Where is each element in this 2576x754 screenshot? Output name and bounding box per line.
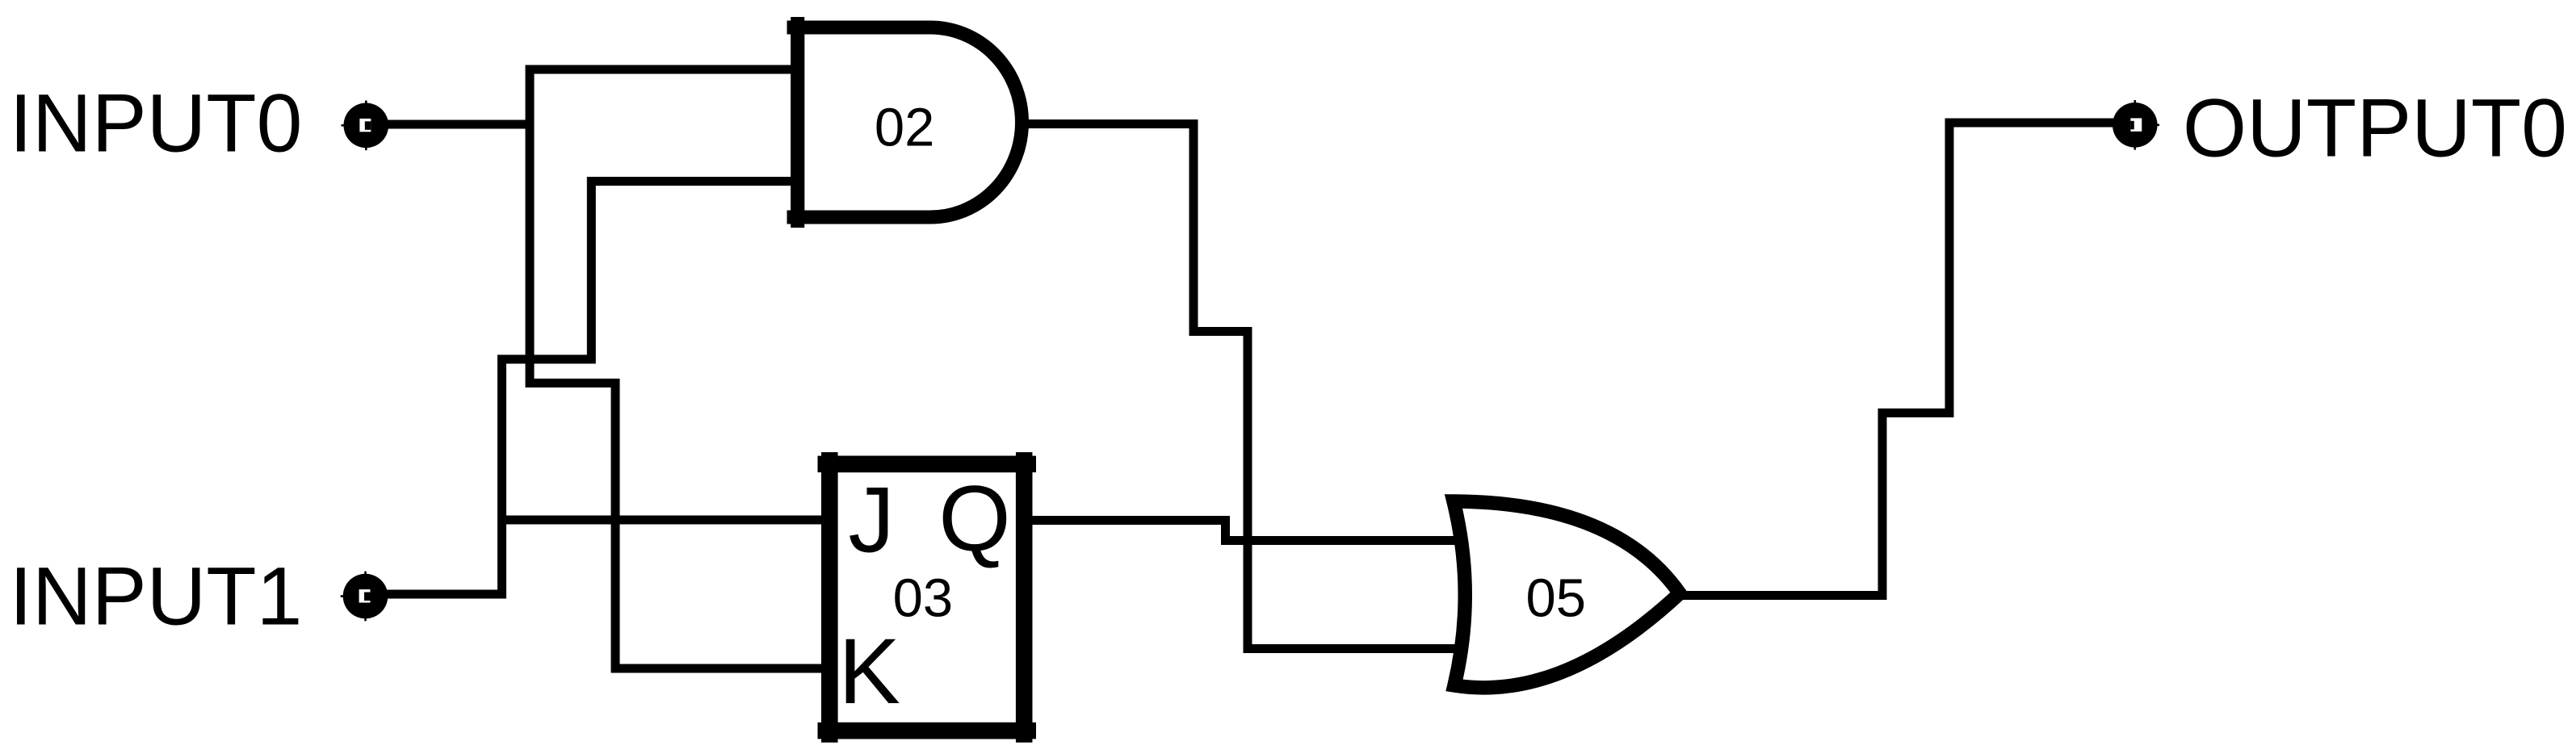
AND gate 02 body bbox=[798, 27, 1022, 217]
AND gate bottom bar overshoot bbox=[787, 211, 931, 224]
terminal OUTPUT0 bbox=[2112, 100, 2159, 150]
wire net OR output to OUTPUT0 terminal bbox=[1678, 123, 2117, 596]
svg-text:05: 05 bbox=[1526, 568, 1587, 629]
svg-text:02: 02 bbox=[875, 98, 935, 158]
OR gate 05 body bbox=[1454, 501, 1680, 688]
svg-text:INPUT0: INPUT0 bbox=[10, 77, 303, 170]
terminal INPUT1 bbox=[341, 572, 388, 622]
wire net INPUT0: AND.in1, down, jog, to JK K input bbox=[530, 69, 824, 668]
svg-text:INPUT1: INPUT1 bbox=[10, 551, 303, 643]
JK box left bar overshoot bbox=[821, 452, 838, 743]
wire net INPUT1 branch to JK J input bbox=[502, 516, 824, 525]
wire net AND output to OR.in2 bbox=[1026, 124, 1462, 649]
AND gate left bar overshoot bbox=[791, 17, 804, 228]
wire INPUT0 stub to vertical bbox=[366, 120, 534, 129]
JK box right bar overshoot bbox=[1016, 452, 1033, 743]
svg-text:K: K bbox=[838, 620, 900, 723]
terminal INPUT0 bbox=[342, 101, 389, 151]
svg-text:J: J bbox=[848, 469, 895, 572]
JK box bottom bar overshoot bbox=[818, 723, 1037, 739]
JK box top bar overshoot bbox=[818, 456, 1037, 473]
wire net Q output to OR.in1 bbox=[1029, 521, 1462, 541]
svg-text:03: 03 bbox=[893, 568, 954, 629]
AND gate top bar overshoot bbox=[787, 21, 931, 35]
wire net INPUT1: terminal to AND.in2 bbox=[366, 182, 793, 595]
JK flip-flop 03 box bbox=[829, 464, 1024, 731]
svg-text:OUTPUT0: OUTPUT0 bbox=[2183, 82, 2567, 174]
svg-text:Q: Q bbox=[938, 467, 1010, 571]
